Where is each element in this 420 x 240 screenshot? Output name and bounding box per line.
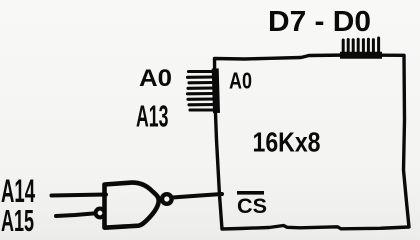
svg-text:16Kx8: 16Kx8 (253, 127, 321, 158)
svg-text:A0: A0 (139, 65, 172, 92)
svg-text:CS: CS (237, 195, 267, 218)
address bus comb teeth A0-A13 (188, 72, 216, 111)
memory chip 16Kx8 box (215, 55, 410, 229)
data bus comb base on chip top edge (340, 52, 382, 59)
wire A15 input (56, 213, 96, 216)
nand output bubble (162, 194, 172, 204)
CS pin overline (active low) (237, 191, 264, 195)
wire A14 input (52, 195, 107, 196)
svg-text:A0: A0 (229, 68, 252, 94)
nand gate U1 (105, 183, 159, 228)
data bus comb teeth D7-D0 (343, 38, 378, 53)
nand input bubble (A15) (96, 209, 105, 218)
svg-text:A13: A13 (136, 99, 169, 134)
address bus comb base on chip left edge (215, 69, 216, 114)
wire from nand output to CS pin (173, 194, 223, 198)
svg-text:D7 - D0: D7 - D0 (268, 6, 371, 38)
svg-text:A15: A15 (1, 203, 34, 238)
